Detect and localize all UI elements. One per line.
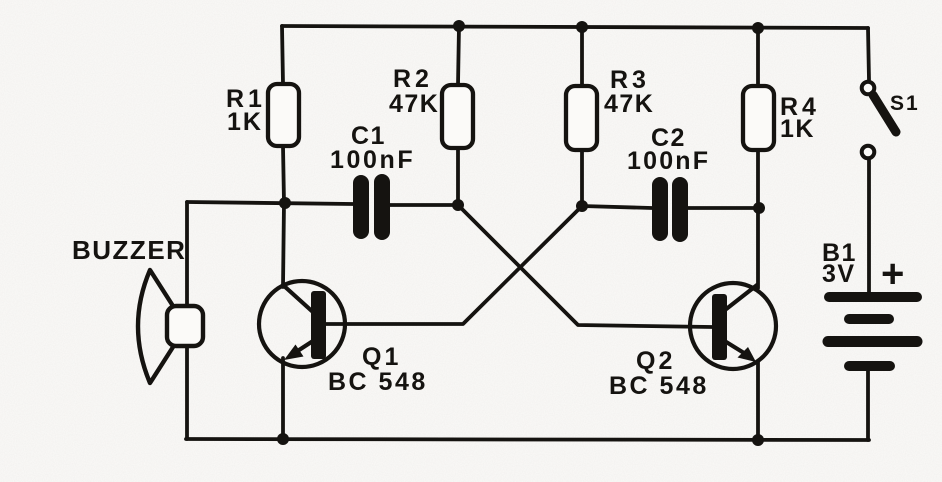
transistor Q2 collector lead (725, 285, 757, 310)
capacitor C2 plates (652, 177, 688, 242)
svg-text:100nF: 100nF (330, 146, 415, 174)
svg-text:1K: 1K (780, 115, 815, 143)
wire battery bottom lead (866, 370, 870, 440)
svg-text:BC 548: BC 548 (328, 368, 428, 396)
transistor Q1 collector lead (283, 285, 314, 313)
node D junction dot (753, 202, 765, 214)
wire R1 bottom lead (283, 146, 284, 203)
wire C1 to node B (390, 203, 458, 207)
svg-text:47K: 47K (604, 90, 654, 118)
wire S1 to battery top (867, 160, 871, 293)
svg-text:Q2: Q2 (636, 347, 675, 375)
svg-text:100nF: 100nF (627, 147, 710, 175)
wire R4 to Q2 collector (756, 150, 760, 288)
wire S1 upper lead (868, 28, 869, 80)
node Q2 emitter ground dot (752, 434, 764, 446)
svg-text:3V: 3V (822, 260, 856, 288)
switch S1 upper contact (862, 82, 875, 95)
node Q1 emitter ground dot (277, 433, 289, 445)
wire mid-left: node A to C1 (187, 202, 353, 204)
svg-text:R2: R2 (393, 65, 433, 93)
switch S1 lower contact (862, 146, 875, 159)
svg-text:1K: 1K (227, 108, 263, 136)
battery B1 plate long 1 (829, 292, 917, 302)
wire node B diagonal to Q2 base (458, 205, 712, 327)
wire Q2 emitter to ground rail (756, 362, 760, 439)
capacitor C1 plates (353, 174, 390, 240)
transistor Q2 emitter lead with arrow (723, 340, 744, 353)
svg-text:+: + (881, 252, 904, 296)
svg-text:Q1: Q1 (362, 343, 401, 371)
battery B1 plate long 2 (828, 336, 917, 347)
transistor Q1 emitter lead with arrow (296, 339, 316, 352)
transistor Q2 base bar (712, 294, 727, 360)
wire R3 top lead (580, 27, 584, 86)
resistor R1 (268, 84, 299, 146)
svg-text:S1: S1 (890, 92, 920, 115)
battery B1 plate short 2 (849, 361, 890, 371)
transistor Q1 body circle (259, 281, 345, 367)
wire Q1 collector lead from node A (283, 203, 284, 287)
buzzer BZ1 body (167, 306, 203, 346)
node B junction dot (452, 199, 464, 211)
svg-text:47K: 47K (389, 90, 439, 118)
wire Q1 emitter to ground rail (281, 358, 285, 439)
node R4 top junction dot (752, 22, 764, 34)
wire R3 bottom lead (580, 150, 584, 206)
resistor R3 (566, 86, 597, 150)
node R3 top junction dot (576, 21, 588, 33)
svg-text:BC 548: BC 548 (609, 372, 709, 400)
wire top supply rail (282, 26, 868, 28)
svg-text:BUZZER: BUZZER (72, 235, 186, 265)
wire node C diagonal to Q1 base (325, 206, 582, 324)
wire R4 top lead (756, 28, 760, 86)
wire R1 top lead (282, 26, 283, 84)
resistor R2 (442, 85, 473, 148)
node C junction dot (576, 200, 588, 212)
battery B1 plate short 1 (849, 314, 889, 324)
transistor Q2 body circle (690, 283, 776, 369)
wire C2 to node D (688, 206, 759, 210)
wire left branch: buzzer vertical (185, 202, 189, 439)
wire bottom ground rail (186, 439, 869, 440)
node A junction dot (279, 197, 291, 209)
wire R2 top lead (458, 26, 459, 85)
buzzer BZ1 horn cone (138, 270, 173, 383)
resistor R4 (743, 86, 774, 150)
transistor Q1 base bar (311, 291, 326, 359)
switch S1 lever (873, 95, 896, 132)
node R2 top junction dot (453, 20, 465, 32)
wire node C to C2 (582, 206, 652, 208)
wire R2 bottom lead (456, 148, 460, 205)
